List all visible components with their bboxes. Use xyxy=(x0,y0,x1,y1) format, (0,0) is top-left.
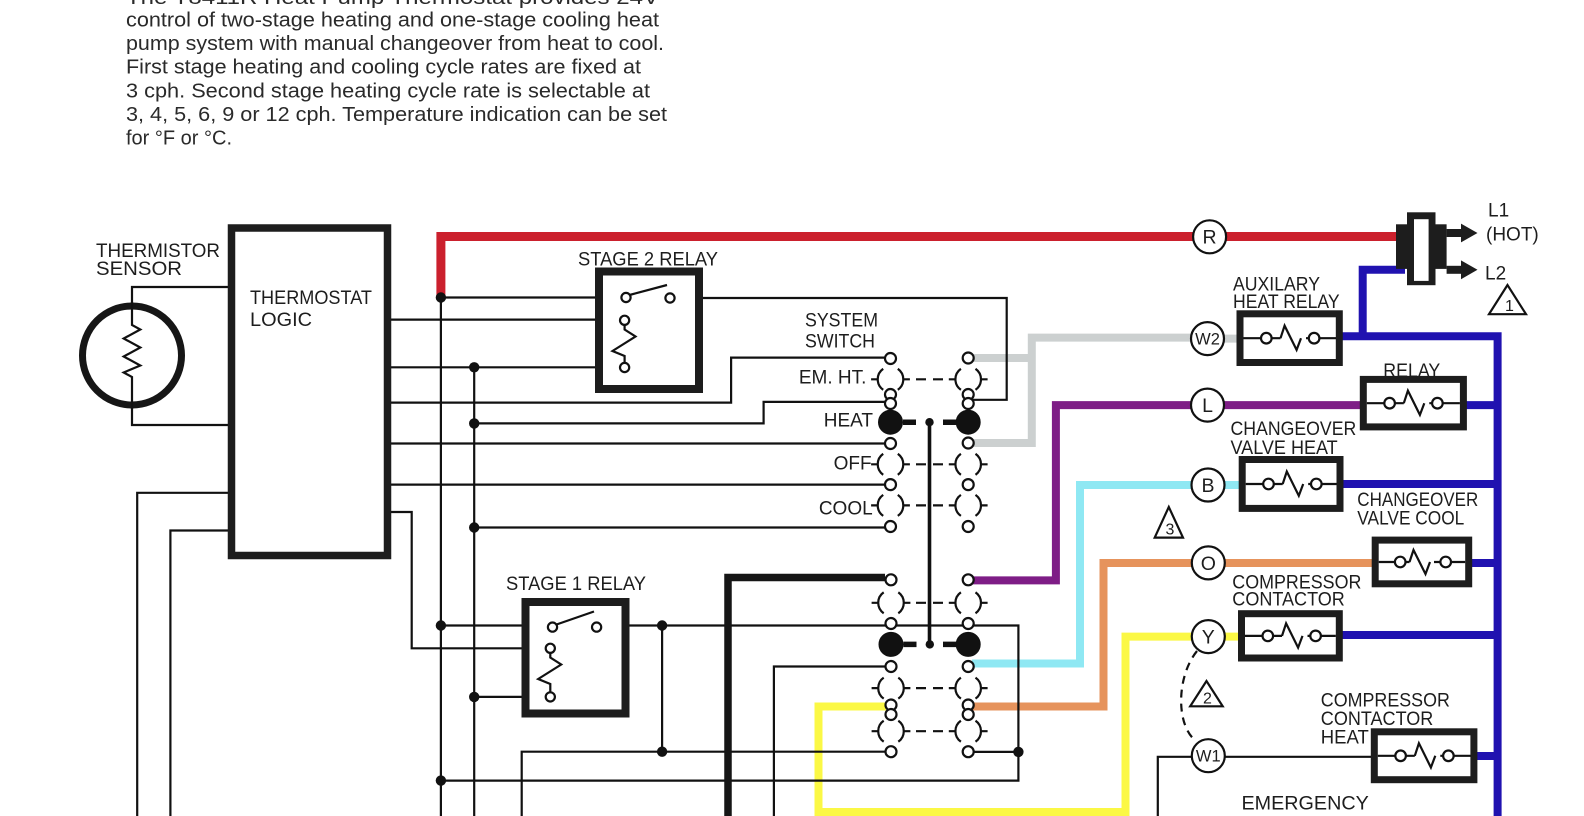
svg-text:HEAT: HEAT xyxy=(824,411,874,432)
dashed interlock arc between Y and W1 xyxy=(1181,651,1197,741)
svg-text:pump system with manual change: pump system with manual changeover from … xyxy=(126,33,664,55)
terminal circle L xyxy=(1191,389,1224,422)
svg-text:3, 4, 5, 6, 9 or 12 cph. Tempe: 3, 4, 5, 6, 9 or 12 cph. Temperature ind… xyxy=(126,104,667,126)
wire W1 to compressor contactor heat xyxy=(1158,757,1377,816)
contact EM.HT left xyxy=(878,369,904,390)
terminal L1e xyxy=(885,479,896,490)
wire logic box to OFF-COOL terminal xyxy=(387,484,886,486)
contact EM.HT right xyxy=(955,369,981,390)
svg-text:EM. HT.: EM. HT. xyxy=(799,368,867,389)
lower bank row1 dashes xyxy=(916,602,943,604)
upper bank HEAT thick dashes and dot xyxy=(903,419,956,425)
terminal circle Y xyxy=(1192,620,1225,653)
warning triangle 2 xyxy=(1190,681,1223,708)
svg-text:W2: W2 xyxy=(1195,331,1220,349)
svg-text:B: B xyxy=(1201,475,1214,497)
lower contact row4 right xyxy=(955,721,981,742)
wire bus x441 to stage-1 relay input xyxy=(441,624,548,626)
wire orange O: from contact bank to O circle and changeover valve cool relay xyxy=(972,559,1378,707)
svg-text:1: 1 xyxy=(1505,298,1514,315)
svg-text:3: 3 xyxy=(1166,522,1175,539)
wire logic box to stage-2 relay switch input xyxy=(387,319,621,321)
svg-text:EMERGENCY: EMERGENCY xyxy=(1242,794,1370,815)
terminal L2e xyxy=(886,709,897,720)
thermostat logic box U1 xyxy=(232,228,388,556)
terminal R1c xyxy=(963,398,974,409)
svg-text:W1: W1 xyxy=(1196,748,1221,766)
contact HEAT right (selected, filled) xyxy=(956,410,980,434)
wire from bus x474 to COOL bottom terminal xyxy=(474,526,886,528)
stage 1 relay K1 xyxy=(526,602,626,714)
lower bank row2 thick dashes and dot xyxy=(904,642,957,648)
svg-text:VALVE COOL: VALVE COOL xyxy=(1357,509,1464,530)
node x662 top junction xyxy=(657,620,667,630)
terminal R1e xyxy=(963,479,974,490)
terminal L2f xyxy=(886,746,897,757)
terminal L2d xyxy=(886,700,897,711)
terminal circle R xyxy=(1193,220,1226,253)
svg-text:for °F or °C.: for °F or °C. xyxy=(126,128,232,150)
terminal L2a xyxy=(886,574,897,585)
node bus474 cool-bottom junction xyxy=(469,522,479,532)
contact OFF right xyxy=(955,454,981,475)
contact HEAT left (selected, filled) xyxy=(879,410,903,434)
lower contact row4 left xyxy=(878,721,904,742)
wire cyan B: from contact bank to B circle and changeover valve heat relay xyxy=(972,481,1246,664)
system switch upper bank left column xyxy=(871,353,910,532)
svg-text:3 cph. Second stage heating cy: 3 cph. Second stage heating cycle rate i… xyxy=(126,80,650,102)
wire red junction to stage-2 relay common xyxy=(441,296,622,298)
lower contact row1 right xyxy=(955,592,981,613)
svg-text:CONTACTOR: CONTACTOR xyxy=(1232,590,1345,611)
terminal L1f xyxy=(885,521,896,532)
wire logic box to stage-1 relay switch input via step xyxy=(387,512,546,648)
svg-text:R: R xyxy=(1203,227,1217,249)
wire vertical bus x474 xyxy=(473,367,475,816)
svg-text:STAGE 1 RELAY: STAGE 1 RELAY xyxy=(506,574,646,595)
node bus441 stage1-input junction xyxy=(436,620,446,630)
terminal circle W1 xyxy=(1192,739,1225,772)
wire gray W2: from system switch right column to W2 aux heat relay xyxy=(974,334,1246,447)
upper bank row dashes EM.HT xyxy=(916,378,943,380)
svg-text:SENSOR: SENSOR xyxy=(96,259,182,280)
upper bank row dashes COOL xyxy=(916,504,943,506)
terminal L1a xyxy=(885,353,896,364)
terminal L1c xyxy=(885,398,896,409)
wire thermistor bottom lead xyxy=(132,404,232,425)
wire vertical bus from red junction down off page xyxy=(440,298,442,816)
svg-text:First stage heating and coolin: First stage heating and cooling cycle ra… xyxy=(126,57,641,79)
contact COOL right xyxy=(955,495,981,516)
svg-text:L: L xyxy=(1202,395,1213,417)
wire thick black to lower bank top terminal xyxy=(728,578,885,816)
relay box (L) xyxy=(1363,379,1463,427)
stage 2 relay K2 xyxy=(599,272,699,390)
terminal circle W2 xyxy=(1191,322,1224,355)
svg-text:control of two-stage heating a: control of two-stage heating and one-sta… xyxy=(126,10,659,32)
terminal R1f xyxy=(963,521,974,532)
wire from bus x474 to HEAT top terminal xyxy=(474,402,886,424)
wire logic box left output 2 going down off page xyxy=(170,531,232,816)
compressor contactor relay box (Y) xyxy=(1242,614,1340,658)
thermistor sensor TH1 xyxy=(83,302,182,409)
svg-text:SYSTEM: SYSTEM xyxy=(805,311,878,332)
wire lower-bank bottom terminal to corner down off page xyxy=(522,752,887,816)
terminal R2c xyxy=(963,661,974,672)
system switch lower bank right column xyxy=(949,574,988,757)
changeover valve cool relay box xyxy=(1375,540,1469,584)
upper bank row dashes OFF xyxy=(916,463,943,465)
svg-text:O: O xyxy=(1201,553,1216,575)
svg-text:RELAY: RELAY xyxy=(1383,361,1440,382)
line voltage transformer connector xyxy=(1396,212,1478,285)
svg-text:HEAT RELAY: HEAT RELAY xyxy=(1233,292,1340,313)
terminal L1b xyxy=(885,389,896,400)
system switch upper bank right column xyxy=(949,353,988,533)
wire vertical link x662 xyxy=(661,626,663,752)
warning triangle 1 xyxy=(1489,285,1526,315)
terminal circle O xyxy=(1192,546,1225,579)
terminal R1d xyxy=(963,438,974,449)
svg-text:HEAT: HEAT xyxy=(1321,728,1369,749)
terminal R1a xyxy=(963,353,974,364)
svg-text:SWITCH: SWITCH xyxy=(805,332,875,353)
wire yellow Y: from contact bank around bottom to Y circle and compressor contactor xyxy=(815,633,1247,816)
svg-text:VALVE HEAT: VALVE HEAT xyxy=(1231,438,1339,459)
wire blue L2 bus: transformer L2 down and main right-side bus xyxy=(1338,270,1498,816)
lower contact row2 right (selected, filled) xyxy=(956,632,980,656)
svg-text:Y: Y xyxy=(1202,627,1215,649)
wire stage-2 relay output to right contact column xyxy=(674,298,1007,400)
svg-text:2: 2 xyxy=(1203,691,1212,708)
auxiliary heat relay box xyxy=(1240,314,1339,363)
changeover valve heat relay box xyxy=(1242,460,1340,509)
contact OFF left xyxy=(878,454,904,475)
svg-text:L1: L1 xyxy=(1488,201,1509,222)
warning triangle 3 xyxy=(1155,507,1183,539)
svg-text:THERMOSTAT: THERMOSTAT xyxy=(250,288,372,309)
lower contact row2 left (selected, filled) xyxy=(879,632,903,656)
svg-text:STAGE 2 RELAY: STAGE 2 RELAY xyxy=(578,250,718,271)
svg-text:(HOT): (HOT) xyxy=(1486,225,1539,246)
node x662 bottom junction xyxy=(657,747,667,757)
node x1018 junction xyxy=(1013,747,1023,757)
lower contact row3 left xyxy=(878,678,904,699)
node bus474 stage1-coil junction xyxy=(469,692,479,702)
wire lower-bank left mid terminal riser xyxy=(774,667,886,816)
wire stage-1 relay output to right column terminal and down-around xyxy=(442,626,1019,781)
svg-text:COOL: COOL xyxy=(819,498,873,519)
terminal R2b xyxy=(963,618,974,629)
lower contact row1 left xyxy=(878,592,904,613)
compressor contactor heat relay box (W1) xyxy=(1374,732,1474,780)
node red junction at stage-2 feed xyxy=(436,292,446,302)
svg-text:L2: L2 xyxy=(1485,264,1506,285)
lower bank row4 dashes xyxy=(916,730,943,732)
terminal L2c xyxy=(886,661,897,672)
contact COOL left xyxy=(878,495,904,516)
wire selector link upper (mechanical link line) xyxy=(928,422,932,644)
terminal R1b xyxy=(963,389,974,400)
node bus474 heat-top junction xyxy=(469,418,479,428)
wire lower-bank right bottom terminal to junction xyxy=(974,751,1019,753)
node bus441 bottom wire junction xyxy=(436,775,446,785)
wire R red: from junction above stage-2 relay to transformer L1 xyxy=(441,237,1402,300)
node bus474 top junction xyxy=(469,362,479,372)
terminal R2e xyxy=(963,709,974,720)
svg-text:The T8411R Heat Pump Thermosta: The T8411R Heat Pump Thermostat provides… xyxy=(126,0,660,9)
system switch lower bank left column xyxy=(872,574,911,757)
wire bus x474 to stage-1 relay coil xyxy=(474,696,546,698)
wire logic box to HEAT bottom terminal xyxy=(387,442,886,444)
svg-text:OFF: OFF xyxy=(834,454,872,475)
terminal R2d xyxy=(963,700,974,711)
lower bank row3 dashes xyxy=(916,687,943,689)
wire purple L: from changeover contact to L circle and relay xyxy=(972,401,1366,580)
wire logic box to stage-2 relay coil xyxy=(387,366,620,368)
wire thermistor top lead xyxy=(132,287,232,306)
terminal L1d xyxy=(885,438,896,449)
terminal circle B xyxy=(1192,469,1225,502)
terminal R2f xyxy=(963,746,974,757)
lower contact row3 right xyxy=(955,678,981,699)
terminal L2b xyxy=(886,618,897,629)
terminal R2a xyxy=(963,574,974,585)
svg-text:LOGIC: LOGIC xyxy=(250,310,312,331)
wire logic box to EM.HT top terminal xyxy=(387,358,886,403)
wire logic box left output 1 going down off page xyxy=(137,493,232,816)
